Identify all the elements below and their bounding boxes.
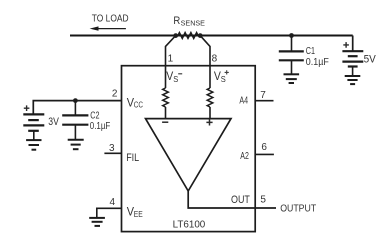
- svg-text:0.1µF: 0.1µF: [306, 57, 329, 68]
- svg-text:6: 6: [261, 142, 267, 153]
- internal input resistor left: [163, 88, 169, 107]
- IC box U1 LT6100: [122, 66, 256, 232]
- svg-text:FIL: FIL: [126, 152, 139, 164]
- ground under battery B1: [26, 139, 41, 141]
- pin 6 A2 stub: [255, 153, 274, 155]
- pin 7 A4 stub: [255, 100, 273, 102]
- pin 3 FIL stub: [104, 152, 121, 154]
- svg-text:C2: C2: [90, 110, 100, 121]
- ground under battery B2: [345, 75, 361, 77]
- resistor RSENSE: [178, 33, 198, 39]
- ground at pin 4: [89, 217, 105, 219]
- svg-text:3V: 3V: [48, 116, 59, 128]
- junction dot C2 on VCC rail: [73, 98, 78, 103]
- battery B1 3V plus sign: [24, 105, 30, 111]
- svg-text:SENSE: SENSE: [181, 18, 205, 27]
- ground under C1: [284, 73, 300, 75]
- svg-text:S: S: [173, 75, 178, 84]
- svg-text:C1: C1: [306, 46, 316, 57]
- ground under C2: [68, 139, 84, 141]
- svg-text:A2: A2: [240, 150, 249, 162]
- svg-text:LT6100: LT6100: [173, 218, 206, 230]
- op-amp minus input sign: [162, 121, 168, 123]
- capacitor C2: [74, 101, 76, 116]
- wire top supply rail: [70, 35, 353, 37]
- svg-text:R: R: [173, 15, 180, 27]
- op-amp A1 triangle: [146, 119, 232, 191]
- capacitor C1: [291, 36, 293, 52]
- svg-text:0.1µF: 0.1µF: [90, 121, 111, 132]
- battery B2 5V: [342, 50, 363, 52]
- arrow to load: [98, 28, 126, 30]
- wire VCC rail left: [33, 101, 121, 115]
- battery B2 5V plus sign: [343, 42, 349, 48]
- wire battery B1 to ground: [33, 131, 35, 140]
- svg-text:5V: 5V: [364, 53, 377, 65]
- svg-text:5: 5: [260, 195, 266, 206]
- svg-text:4: 4: [110, 197, 116, 208]
- junction dot C1 on supply rail: [289, 33, 294, 38]
- svg-text:A4: A4: [239, 95, 248, 107]
- wire RSENSE right dot to pin 8: [200, 36, 210, 88]
- svg-text:7: 7: [260, 90, 266, 101]
- svg-text:S: S: [221, 75, 226, 84]
- op-amp plus input sign: [206, 119, 212, 125]
- svg-text:OUTPUT: OUTPUT: [280, 202, 316, 214]
- svg-text:2: 2: [112, 89, 118, 100]
- svg-text:CC: CC: [134, 101, 143, 110]
- pin 4 VEE stub: [97, 208, 122, 217]
- svg-text:8: 8: [212, 54, 218, 65]
- svg-text:TO LOAD: TO LOAD: [92, 14, 129, 25]
- junction dot left of RSENSE: [173, 33, 178, 38]
- wire battery B2 to ground: [352, 67, 354, 76]
- junction dot right of RSENSE: [198, 33, 203, 38]
- svg-text:1: 1: [168, 54, 174, 65]
- wire op-amp output to pin 5 OUTPUT: [188, 191, 276, 208]
- svg-text:EE: EE: [134, 210, 143, 219]
- svg-text:3: 3: [109, 143, 115, 154]
- svg-text:OUT: OUT: [231, 194, 250, 206]
- wire RSENSE left dot to pin 1: [166, 36, 176, 88]
- internal input resistor right: [207, 88, 213, 107]
- battery B1 3V: [23, 113, 44, 115]
- wire supply rail to battery B2: [352, 36, 354, 52]
